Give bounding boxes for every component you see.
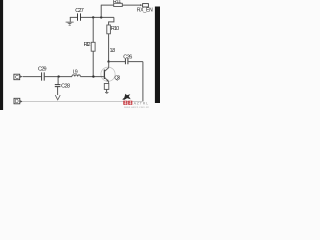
svg-text:R12: R12 xyxy=(84,42,91,48)
wire R10 down to collector node xyxy=(108,34,110,62)
wire riser to R11 xyxy=(101,5,114,17)
svg-text:R11: R11 xyxy=(113,0,121,5)
transistor Q3 xyxy=(101,62,120,84)
svg-text:L9: L9 xyxy=(73,70,78,76)
wire C to C29 xyxy=(23,76,42,78)
ground arrow (under C28) xyxy=(55,95,60,100)
watermark red characters xyxy=(123,101,132,105)
resistor R12 xyxy=(84,17,96,76)
resistor R11 xyxy=(113,0,122,7)
wire R11 to RX_EN xyxy=(122,4,140,6)
capacitor C29 xyxy=(38,67,47,81)
svg-text:C26: C26 xyxy=(123,54,132,60)
wire L9 to Q3 base xyxy=(80,76,103,78)
inductor L9 xyxy=(72,70,80,77)
svg-text:D: D xyxy=(15,99,19,105)
right page border xyxy=(155,7,160,104)
node junction (R11 riser) xyxy=(100,16,102,18)
left page border xyxy=(0,0,3,110)
wire top rail xyxy=(70,16,114,18)
svg-text:www.astrc.com.cn: www.astrc.com.cn xyxy=(124,105,150,109)
wire C26 to D rail xyxy=(128,62,143,102)
svg-text:RX_EN: RX_EN xyxy=(137,7,153,13)
node collector junction xyxy=(107,60,109,62)
terminal RX_EN xyxy=(137,4,153,14)
svg-text:AZTRL: AZTRL xyxy=(134,101,149,105)
wire C29 to L9 xyxy=(45,76,72,78)
ground (under Q3) xyxy=(105,89,109,93)
wire D rail xyxy=(23,100,143,102)
svg-text:C: C xyxy=(15,75,19,81)
svg-text:Q3: Q3 xyxy=(114,75,120,81)
svg-text:1.8: 1.8 xyxy=(110,48,116,54)
svg-text:R10: R10 xyxy=(111,26,119,32)
watermark logo bird xyxy=(122,94,131,100)
terminal D xyxy=(14,98,23,105)
node junction (R12 top) xyxy=(92,16,94,18)
wire to C26 xyxy=(109,61,125,63)
resistor R10 xyxy=(107,25,119,34)
capacitor C28 xyxy=(55,77,70,95)
ground (top left) xyxy=(66,17,74,25)
terminal C xyxy=(14,74,23,81)
capacitor C26 xyxy=(123,54,132,64)
svg-text:C29: C29 xyxy=(38,67,47,73)
node junction (R12 bottom) xyxy=(92,75,94,77)
wire corner into R10 xyxy=(109,17,114,25)
svg-text:C28: C28 xyxy=(61,84,70,90)
node junction (C28 tap) xyxy=(57,75,59,77)
emitter box xyxy=(104,84,109,90)
svg-text:C27: C27 xyxy=(75,8,84,14)
capacitor C27 xyxy=(75,8,84,21)
